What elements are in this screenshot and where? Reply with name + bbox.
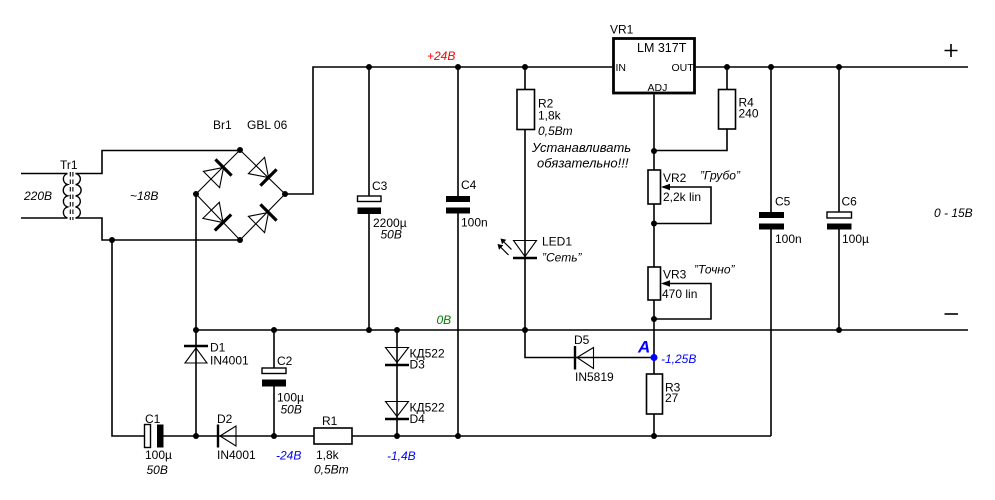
svg-text:220В: 220В	[23, 189, 52, 203]
svg-text:50В: 50В	[381, 228, 402, 242]
svg-text:0В: 0В	[437, 313, 452, 327]
svg-text:”Грубо”: ”Грубо”	[700, 169, 741, 183]
svg-text:50В: 50В	[147, 463, 168, 477]
svg-text:ADJ: ADJ	[648, 82, 668, 94]
svg-text:OUT: OUT	[672, 62, 695, 74]
svg-text:240: 240	[739, 107, 759, 121]
svg-text:LED1: LED1	[542, 235, 572, 249]
svg-text:обязательно!!!: обязательно!!!	[537, 156, 629, 171]
svg-text:C5: C5	[775, 195, 791, 209]
svg-text:0,5Вт: 0,5Вт	[538, 124, 573, 138]
svg-text:”Точно”: ”Точно”	[694, 263, 736, 277]
svg-text:C1: C1	[145, 412, 161, 426]
svg-text:D3: D3	[410, 358, 426, 372]
svg-text:Устанавливать: Устанавливать	[531, 140, 631, 155]
svg-text:C4: C4	[461, 178, 477, 192]
svg-text:~18В: ~18В	[130, 189, 158, 203]
svg-text:-1,25В: -1,25В	[661, 352, 696, 366]
svg-text:C3: C3	[372, 179, 388, 193]
svg-text:1,8k: 1,8k	[316, 448, 340, 462]
svg-text:Tr1: Tr1	[60, 158, 78, 172]
svg-text:Br1: Br1	[213, 118, 232, 132]
svg-text:100µ: 100µ	[842, 232, 869, 246]
svg-text:IN: IN	[616, 62, 627, 74]
svg-text:+24В: +24В	[427, 49, 455, 63]
svg-text:470 lin: 470 lin	[662, 287, 697, 301]
svg-text:50В: 50В	[281, 403, 302, 417]
svg-text:GBL 06: GBL 06	[247, 118, 288, 132]
svg-text:D4: D4	[410, 412, 426, 426]
svg-text:IN5819: IN5819	[575, 370, 614, 384]
svg-text:1,8k: 1,8k	[538, 109, 562, 123]
svg-text:100n: 100n	[461, 216, 488, 230]
svg-text:D5: D5	[574, 333, 590, 347]
svg-text:-24В: -24В	[276, 449, 301, 463]
svg-text:VR2: VR2	[663, 171, 687, 185]
svg-text:D2: D2	[217, 412, 233, 426]
svg-text:D1: D1	[210, 341, 226, 355]
svg-text:IN4001: IN4001	[217, 448, 256, 462]
svg-text:0,5Вт: 0,5Вт	[314, 463, 349, 477]
svg-text:2,2k lin: 2,2k lin	[663, 190, 701, 204]
svg-text:C2: C2	[277, 354, 293, 368]
svg-text:C6: C6	[842, 195, 858, 209]
svg-text:100µ: 100µ	[145, 448, 172, 462]
svg-text:VR1: VR1	[610, 23, 634, 37]
svg-text:-1,4В: -1,4В	[387, 449, 416, 463]
svg-text:VR3: VR3	[663, 268, 687, 282]
svg-text:A: A	[637, 338, 650, 357]
svg-text:IN4001: IN4001	[210, 354, 249, 368]
svg-text:0 - 15В: 0 - 15В	[934, 206, 973, 220]
svg-text:”Сеть”: ”Сеть”	[542, 251, 583, 265]
svg-text:R1: R1	[322, 414, 338, 428]
svg-text:LM 317T: LM 317T	[637, 41, 687, 55]
svg-text:27: 27	[665, 391, 679, 405]
svg-text:100n: 100n	[775, 232, 802, 246]
